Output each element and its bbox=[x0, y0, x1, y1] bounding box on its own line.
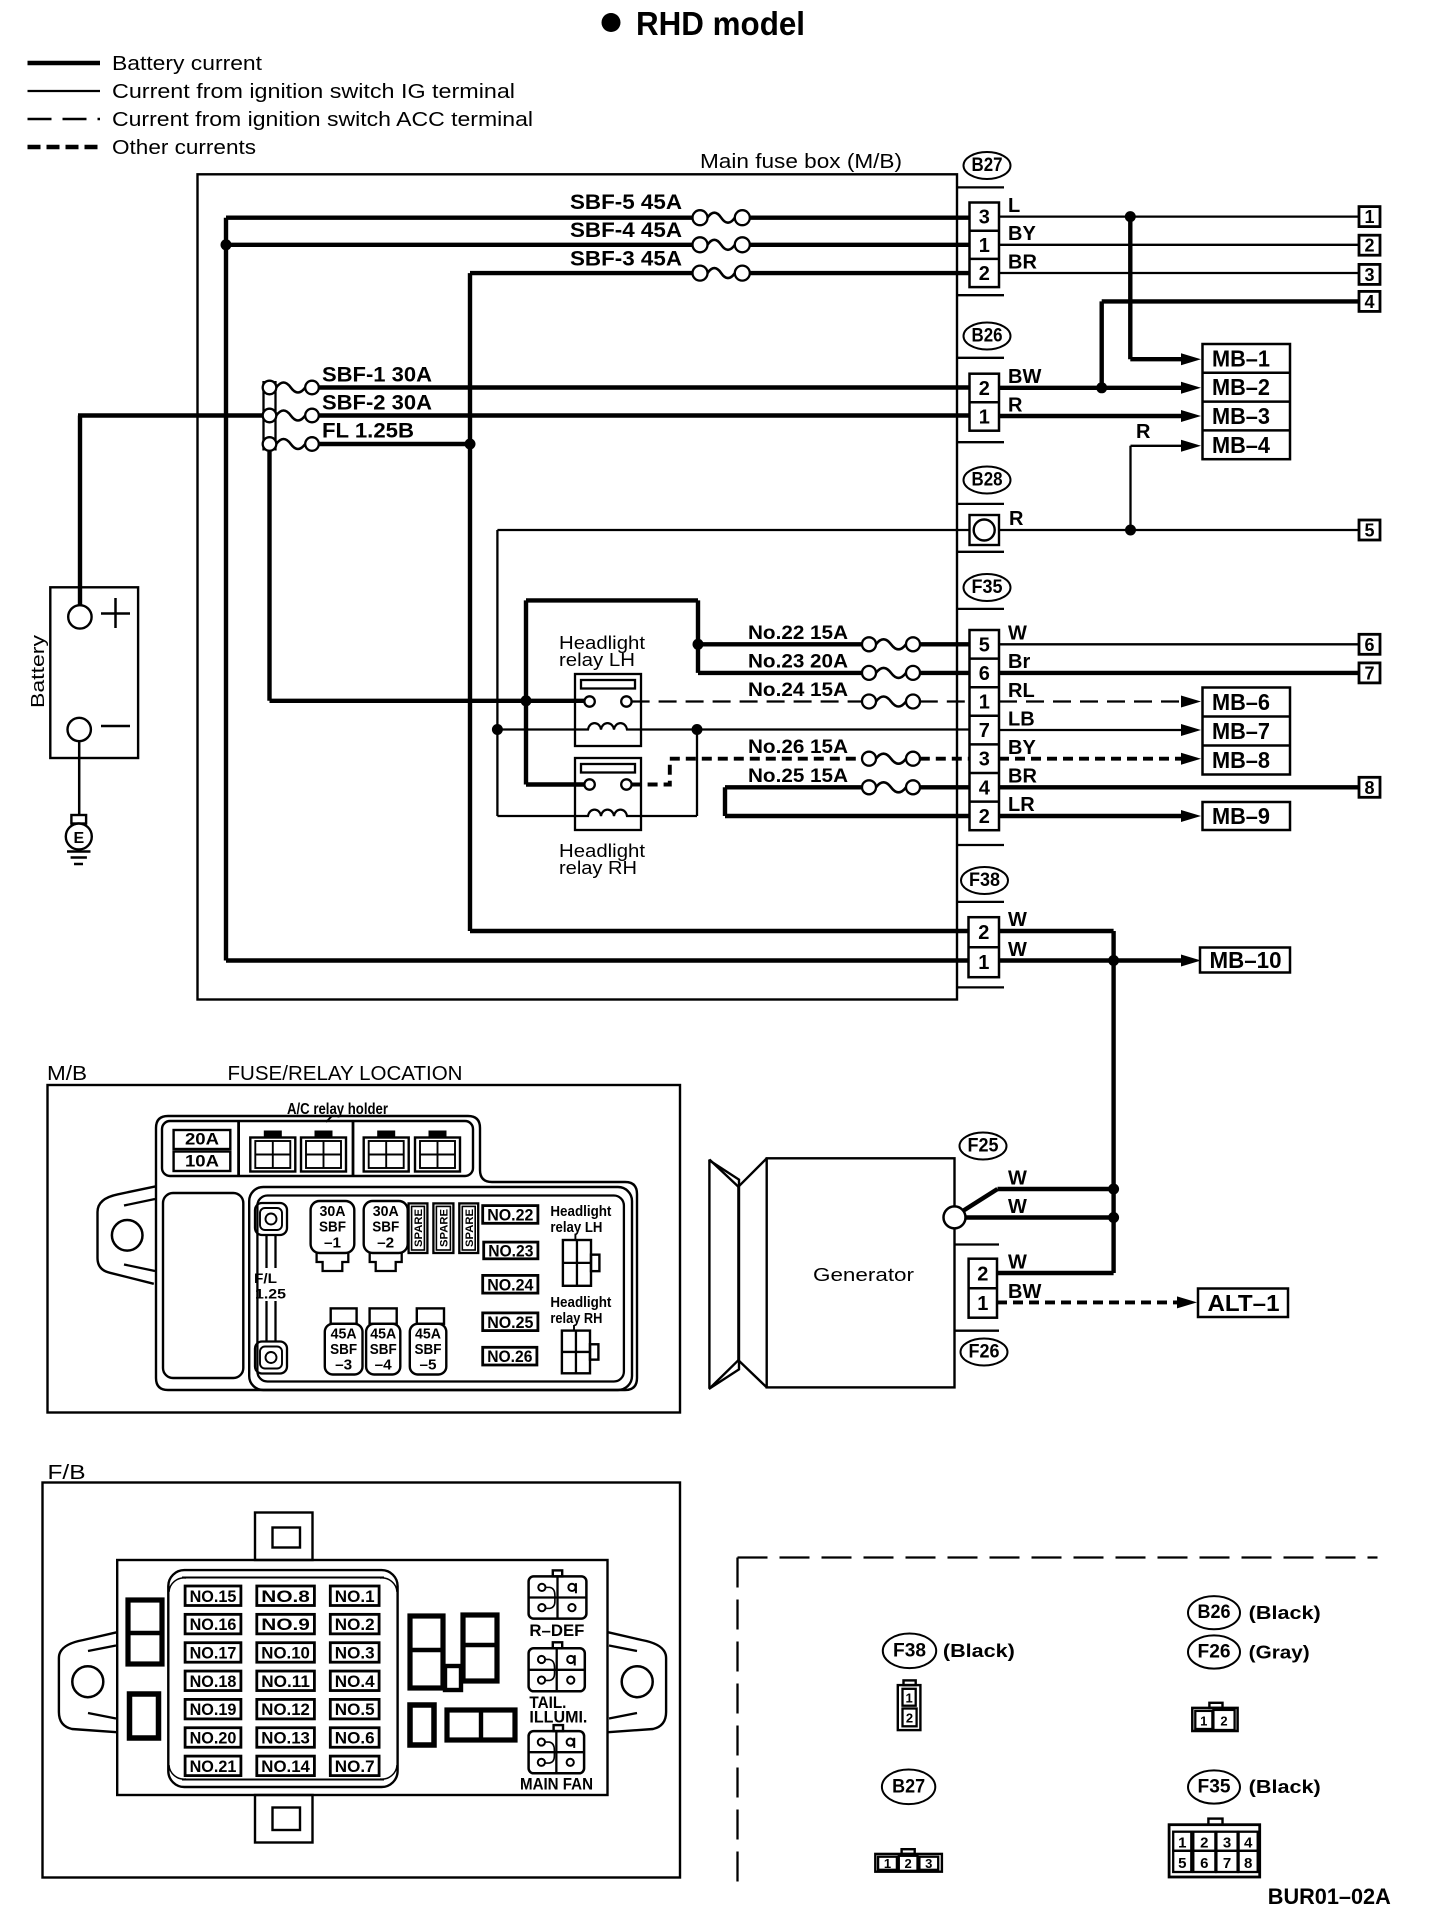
wire BR to box3 bbox=[999, 272, 1359, 274]
svg-text:1: 1 bbox=[979, 692, 990, 714]
junction gen W1 bbox=[1108, 1184, 1119, 1195]
fuse No.26 15A bbox=[748, 737, 920, 766]
svg-text:NO.15: NO.15 bbox=[190, 1588, 237, 1606]
label LR bbox=[1008, 794, 1035, 816]
wire SBF-3 feed vertical bbox=[470, 273, 970, 931]
connector label F38 bbox=[961, 867, 1008, 894]
wire SBF-5 feed vertical bbox=[224, 218, 228, 961]
wire No22-23 feed bbox=[526, 600, 698, 673]
junction LB bbox=[692, 724, 703, 735]
svg-text:2: 2 bbox=[977, 1263, 988, 1285]
svg-text:30A: 30A bbox=[373, 1203, 399, 1220]
F/B left bracket bbox=[59, 1632, 117, 1732]
wire F26 pin2 W bbox=[997, 1271, 1114, 1275]
svg-text:–4: –4 bbox=[375, 1357, 393, 1374]
svg-text:E: E bbox=[73, 830, 84, 847]
wire LR internal bbox=[725, 814, 970, 818]
label L bbox=[1008, 195, 1020, 217]
svg-text:ILLUMI.: ILLUMI. bbox=[529, 1708, 587, 1727]
wire SBF-3 to B27 pin2 bbox=[749, 271, 970, 275]
wire No25 to pin4 bbox=[920, 785, 970, 789]
svg-text:45A: 45A bbox=[331, 1326, 357, 1343]
20A box bbox=[174, 1130, 231, 1150]
wire SBF-4 to B27 pin1 bbox=[749, 243, 970, 247]
svg-text:Main fuse box (M/B): Main fuse box (M/B) bbox=[700, 151, 902, 173]
F/B middle connector B bbox=[463, 1615, 497, 1681]
fuse bus bar bbox=[264, 381, 276, 451]
connector tick y295.2 bbox=[957, 294, 1004, 296]
wire No25 bbox=[725, 787, 863, 816]
wire battery positive bbox=[78, 416, 267, 606]
legend other currents text bbox=[112, 137, 256, 159]
headlight relay LH label bbox=[559, 632, 645, 670]
wire SBF-1 output bbox=[319, 385, 970, 389]
wire F26 pin1 BW to ALT-1 bbox=[997, 1296, 1197, 1308]
connector label B28 bbox=[964, 467, 1011, 494]
connector view F38 label bbox=[883, 1634, 1015, 1669]
svg-text:L: L bbox=[1008, 195, 1020, 217]
svg-text:Battery current: Battery current bbox=[112, 53, 262, 75]
legend IG text bbox=[112, 81, 515, 103]
F/B frame bbox=[43, 1483, 681, 1878]
wire generator W2 bbox=[966, 1215, 1114, 1219]
svg-text:1: 1 bbox=[905, 1691, 912, 1706]
svg-text:4: 4 bbox=[1364, 292, 1374, 312]
fuse No.25 15A bbox=[748, 766, 920, 794]
svg-text:MB–9: MB–9 bbox=[1212, 803, 1270, 829]
svg-text:NO.22: NO.22 bbox=[487, 1206, 533, 1224]
connector label B27 bbox=[964, 152, 1011, 179]
fuse label NO.2 bbox=[330, 1614, 379, 1634]
svg-text:RHD model: RHD model bbox=[636, 5, 805, 42]
A/C relay socket 4 bbox=[415, 1131, 460, 1172]
label LB bbox=[1008, 709, 1035, 731]
svg-text:MB–8: MB–8 bbox=[1212, 747, 1270, 773]
MAIN FAN label bbox=[520, 1775, 593, 1794]
generator body bbox=[767, 1158, 955, 1387]
A/C relay holder box bbox=[162, 1121, 473, 1176]
A/C relay holder label bbox=[287, 1101, 388, 1122]
svg-text:1: 1 bbox=[1178, 1835, 1186, 1852]
svg-text:20A: 20A bbox=[185, 1130, 219, 1149]
svg-text:NO.25: NO.25 bbox=[487, 1314, 533, 1332]
svg-text:6: 6 bbox=[979, 663, 990, 685]
F/B middle connector C bbox=[410, 1705, 434, 1745]
svg-text:B27: B27 bbox=[972, 155, 1003, 176]
wire LB to MB-7 bbox=[999, 724, 1201, 736]
headlight relay RH label bbox=[559, 840, 645, 878]
M/B headlight relay LH glyph bbox=[563, 1240, 600, 1286]
fuse label NO.10 bbox=[257, 1643, 315, 1663]
wire coil RH link bbox=[641, 730, 697, 817]
spare slot 3 bbox=[459, 1203, 478, 1253]
M/B unit outline bbox=[156, 1116, 637, 1390]
connector view F26 label bbox=[1188, 1635, 1310, 1668]
svg-text:BY: BY bbox=[1008, 737, 1036, 759]
relay LH box bbox=[575, 674, 641, 746]
svg-text:FUSE/RELAY LOCATION: FUSE/RELAY LOCATION bbox=[228, 1063, 463, 1085]
node box 8 bbox=[1359, 777, 1380, 798]
battery minus terminal bbox=[68, 718, 131, 741]
wire BR to box8 bbox=[999, 785, 1359, 789]
connector tick y187.4 bbox=[957, 186, 1004, 188]
label R B26 bbox=[1008, 395, 1023, 417]
svg-text:7: 7 bbox=[979, 720, 990, 742]
label NO.25 bbox=[483, 1313, 538, 1332]
svg-text:4: 4 bbox=[979, 777, 991, 799]
connector tick y551.8 bbox=[957, 551, 1004, 553]
connector F26 pins bbox=[969, 1259, 997, 1318]
F/L link bottom cap bbox=[255, 1342, 287, 1374]
connector tick y357.8 bbox=[957, 357, 1004, 359]
junction BW bbox=[1096, 382, 1107, 393]
svg-text:8: 8 bbox=[1364, 778, 1374, 798]
svg-text:NO.18: NO.18 bbox=[190, 1673, 237, 1691]
svg-text:–2: –2 bbox=[377, 1235, 394, 1252]
fuse label NO.19 bbox=[185, 1699, 241, 1719]
svg-text:1: 1 bbox=[1200, 1714, 1207, 1729]
fuse label NO.7 bbox=[330, 1756, 379, 1776]
svg-text:NO.8: NO.8 bbox=[261, 1588, 310, 1606]
generator tick bottom bbox=[955, 1330, 1000, 1332]
connector label F25 bbox=[960, 1133, 1007, 1160]
svg-text:BR: BR bbox=[1008, 252, 1037, 274]
wire RL to MB-6 bbox=[999, 696, 1201, 708]
fuse No.23 20A bbox=[748, 652, 920, 680]
spare slot 2 bbox=[433, 1203, 453, 1253]
svg-text:10A: 10A bbox=[185, 1152, 219, 1171]
svg-text:F/L: F/L bbox=[254, 1271, 277, 1286]
wire BW to MB-2 bbox=[999, 382, 1201, 394]
fuse label NO.4 bbox=[330, 1671, 379, 1691]
svg-text:Current from ignition switch A: Current from ignition switch ACC termina… bbox=[112, 109, 533, 131]
svg-text:1: 1 bbox=[1364, 207, 1374, 227]
svg-text:2: 2 bbox=[1364, 236, 1374, 256]
svg-text:Br: Br bbox=[1008, 651, 1030, 673]
junction R bbox=[1125, 525, 1136, 536]
fuse slot 45A SBF-5 bbox=[410, 1308, 447, 1374]
svg-text:relay RH: relay RH bbox=[559, 857, 637, 878]
MAIN FAN relay glyph bbox=[529, 1725, 585, 1773]
svg-text:SPARE: SPARE bbox=[438, 1209, 450, 1247]
M/B right pennant bbox=[709, 1160, 739, 1389]
svg-text:–3: –3 bbox=[335, 1357, 352, 1374]
label W gen2 bbox=[1008, 1196, 1027, 1218]
svg-text:No.23 20A: No.23 20A bbox=[748, 652, 848, 673]
wire battery negative to ground bbox=[78, 741, 81, 815]
svg-text:F25: F25 bbox=[968, 1136, 999, 1157]
label W F35 bbox=[1008, 623, 1027, 645]
svg-text:SBF: SBF bbox=[415, 1341, 442, 1358]
fuse relay location title bbox=[228, 1063, 463, 1085]
node box 5 bbox=[1359, 520, 1380, 541]
M/B headlight relay LH pointer bbox=[574, 1234, 576, 1240]
wire R to MB-3 bbox=[999, 410, 1201, 422]
wire LR to MB-9 bbox=[999, 810, 1201, 822]
fuse slot 30A SBF-2 bbox=[364, 1201, 408, 1271]
fuse label NO.15 bbox=[185, 1586, 241, 1606]
svg-text:A/C relay holder: A/C relay holder bbox=[287, 1101, 388, 1118]
label BR bbox=[1008, 252, 1037, 274]
svg-text:–1: –1 bbox=[324, 1235, 341, 1252]
legend IG line bbox=[28, 90, 101, 92]
svg-text:F35: F35 bbox=[1198, 1777, 1231, 1798]
svg-text:(Black): (Black) bbox=[1249, 1603, 1321, 1623]
svg-text:(Gray): (Gray) bbox=[1249, 1643, 1310, 1663]
F/B left connector A bbox=[128, 1600, 162, 1664]
svg-text:NO.7: NO.7 bbox=[335, 1758, 375, 1776]
fuse SBF-2 30A bbox=[263, 392, 432, 423]
svg-text:NO.5: NO.5 bbox=[335, 1701, 375, 1719]
svg-text:relay LH: relay LH bbox=[550, 1219, 602, 1236]
svg-text:45A: 45A bbox=[370, 1326, 396, 1343]
TAIL ILLUMI label bbox=[529, 1693, 587, 1727]
svg-text:No.26 15A: No.26 15A bbox=[748, 737, 848, 758]
svg-text:–5: –5 bbox=[420, 1357, 437, 1374]
A/C relay socket 2 bbox=[301, 1131, 346, 1172]
svg-text:SBF: SBF bbox=[370, 1341, 397, 1358]
R-DEF relay glyph bbox=[529, 1570, 587, 1618]
fuse label NO.13 bbox=[257, 1728, 315, 1748]
svg-text:F38: F38 bbox=[893, 1640, 926, 1661]
F/B middle connector A bbox=[410, 1616, 443, 1688]
title RHD model bbox=[636, 5, 805, 42]
wire box4 to BW junction bbox=[1102, 301, 1359, 387]
wire No26 dashed bbox=[632, 759, 863, 785]
svg-text:BUR01–02A: BUR01–02A bbox=[1268, 1884, 1391, 1908]
wire BY to MB-8 bbox=[999, 753, 1201, 765]
svg-text:MB–7: MB–7 bbox=[1212, 718, 1270, 744]
M/B left bracket bbox=[98, 1186, 157, 1284]
node box 7 bbox=[1359, 663, 1380, 684]
svg-text:3: 3 bbox=[1223, 1835, 1231, 1852]
node box 3 bbox=[1359, 264, 1380, 285]
svg-text:3: 3 bbox=[925, 1856, 932, 1871]
dashed border bbox=[738, 1558, 1378, 1888]
fuse label NO.1 bbox=[330, 1586, 379, 1606]
node box 1 bbox=[1359, 207, 1380, 228]
label BR F35 bbox=[1008, 766, 1037, 788]
svg-text:2: 2 bbox=[1220, 1714, 1227, 1729]
svg-text:6: 6 bbox=[1364, 635, 1374, 655]
M/B label bbox=[47, 1063, 87, 1085]
svg-text:F26: F26 bbox=[1198, 1642, 1231, 1663]
label W gen1 bbox=[1008, 1168, 1027, 1190]
fuse slot 45A SBF-3 bbox=[325, 1308, 363, 1374]
relay RH box bbox=[575, 758, 641, 830]
wire LH coil left bbox=[497, 728, 575, 730]
svg-text:NO.10: NO.10 bbox=[261, 1644, 310, 1662]
wire generator W diagonal bbox=[962, 1189, 1114, 1212]
M/B headlight relay RH label bbox=[550, 1294, 611, 1327]
svg-text:B27: B27 bbox=[892, 1776, 925, 1797]
wire B28 R to box5 bbox=[999, 529, 1359, 531]
svg-text:1: 1 bbox=[977, 1293, 988, 1315]
TAIL ILLUMI relay glyph bbox=[529, 1642, 585, 1691]
svg-text:F38: F38 bbox=[969, 870, 1000, 891]
svg-text:NO.13: NO.13 bbox=[261, 1730, 310, 1748]
legend battery current text bbox=[112, 53, 262, 75]
junction gen W2 bbox=[1108, 1212, 1119, 1223]
connector view F35 label bbox=[1188, 1770, 1321, 1803]
svg-text:No.22 15A: No.22 15A bbox=[748, 623, 848, 644]
wire SBF-5 to B27 pin3 bbox=[749, 215, 970, 219]
svg-text:5: 5 bbox=[1178, 1855, 1186, 1872]
svg-text:F35: F35 bbox=[972, 577, 1003, 598]
svg-text:NO.19: NO.19 bbox=[190, 1701, 237, 1719]
connector label F26 bbox=[961, 1339, 1008, 1366]
wire SBF-2 output bbox=[319, 413, 970, 417]
generator B terminal bbox=[944, 1206, 966, 1228]
svg-text:LR: LR bbox=[1008, 794, 1035, 816]
wire SBF-3 to fuse bbox=[470, 271, 693, 275]
svg-text:FL 1.25B: FL 1.25B bbox=[322, 420, 414, 443]
svg-text:5: 5 bbox=[979, 634, 990, 656]
connector view B27 label bbox=[882, 1770, 935, 1805]
svg-text:SBF-2 30A: SBF-2 30A bbox=[322, 392, 432, 415]
label R B28 bbox=[1009, 508, 1024, 530]
svg-text:NO.9: NO.9 bbox=[261, 1616, 310, 1634]
drawing number bbox=[1268, 1884, 1391, 1908]
connector label B26 bbox=[964, 323, 1011, 350]
generator tick top bbox=[955, 1243, 1000, 1245]
wire No24 to pin1 bbox=[920, 700, 970, 702]
svg-text:relay LH: relay LH bbox=[559, 649, 635, 670]
svg-text:F26: F26 bbox=[969, 1342, 1000, 1363]
fuse slot 30A SBF-1 bbox=[311, 1201, 355, 1271]
wire BY to box2 bbox=[999, 244, 1359, 246]
battery plus terminal bbox=[68, 598, 130, 629]
label R MB-4 bbox=[1136, 421, 1151, 443]
connector view B26 label bbox=[1188, 1596, 1321, 1629]
fuse No.24 15A bbox=[748, 680, 920, 709]
svg-text:W: W bbox=[1008, 1168, 1027, 1190]
svg-text:MB–10: MB–10 bbox=[1210, 947, 1282, 973]
svg-text:2: 2 bbox=[979, 263, 990, 285]
generator pulley bbox=[709, 1158, 766, 1388]
svg-text:3: 3 bbox=[979, 749, 990, 771]
MB-9 box bbox=[1203, 802, 1291, 830]
MB-10 box bbox=[1200, 947, 1290, 973]
label W F38 pin2 bbox=[1008, 909, 1027, 931]
connector view B27 pins bbox=[875, 1849, 942, 1872]
junction No22 bbox=[693, 639, 704, 650]
fuse label NO.17 bbox=[185, 1643, 241, 1663]
relay RH contacts bbox=[584, 779, 631, 789]
svg-text:NO.23: NO.23 bbox=[488, 1242, 533, 1260]
svg-text:W: W bbox=[1008, 939, 1027, 961]
label NO.23 bbox=[484, 1242, 538, 1260]
connector B28 pin bbox=[970, 515, 1000, 545]
wire F38 pin2 W bbox=[999, 931, 1114, 1273]
svg-text:SPARE: SPARE bbox=[413, 1209, 425, 1247]
svg-text:No.25 15A: No.25 15A bbox=[748, 766, 848, 787]
svg-text:45A: 45A bbox=[415, 1326, 441, 1343]
svg-text:30A: 30A bbox=[320, 1203, 346, 1220]
svg-text:BW: BW bbox=[1008, 1281, 1041, 1303]
F/B fuse grid box bbox=[168, 1570, 397, 1787]
fuse label NO.20 bbox=[185, 1728, 241, 1748]
svg-text:R–DEF: R–DEF bbox=[529, 1621, 584, 1640]
svg-text:3: 3 bbox=[1364, 265, 1374, 285]
wire SBF-4 to fuse bbox=[226, 243, 693, 247]
label BW bbox=[1008, 366, 1041, 388]
svg-text:B26: B26 bbox=[1198, 1602, 1231, 1623]
F/B middle connector small bbox=[445, 1666, 461, 1690]
svg-text:Other currents: Other currents bbox=[112, 137, 256, 159]
connector F38 pins bbox=[969, 917, 1000, 977]
wire to MB-1 bbox=[1130, 217, 1201, 366]
svg-text:ALT–1: ALT–1 bbox=[1208, 1290, 1280, 1316]
svg-text:7: 7 bbox=[1364, 663, 1374, 683]
fuse label NO.21 bbox=[185, 1756, 241, 1776]
fuse SBF-1 30A bbox=[263, 364, 432, 395]
wire LB from coil bbox=[641, 728, 970, 730]
svg-text:NO.16: NO.16 bbox=[190, 1616, 237, 1634]
label NO.22 bbox=[483, 1206, 538, 1225]
svg-text:NO.14: NO.14 bbox=[261, 1758, 310, 1776]
svg-text:BW: BW bbox=[1008, 366, 1041, 388]
fuse label NO.12 bbox=[257, 1699, 315, 1719]
M/B headlight relay RH pointer bbox=[573, 1325, 575, 1331]
fuse label NO.11 bbox=[257, 1671, 315, 1691]
wire bus down to relay feed bbox=[270, 451, 585, 701]
wire F38 pin1 W to MB-10 bbox=[999, 955, 1201, 967]
battery box bbox=[50, 587, 138, 758]
svg-text:MB–3: MB–3 bbox=[1212, 403, 1270, 429]
F/B label bbox=[48, 1462, 86, 1484]
svg-text:SBF-5 45A: SBF-5 45A bbox=[570, 191, 682, 214]
svg-text:SBF: SBF bbox=[372, 1219, 399, 1236]
svg-text:2: 2 bbox=[978, 922, 989, 944]
svg-text:R: R bbox=[1136, 421, 1151, 443]
label W F26 bbox=[1008, 1252, 1027, 1274]
svg-text:SBF: SBF bbox=[319, 1219, 346, 1236]
F/B right bracket bbox=[608, 1632, 666, 1732]
connector label F35 bbox=[964, 574, 1011, 601]
junction relay feed bbox=[521, 695, 532, 706]
svg-text:MB–6: MB–6 bbox=[1212, 689, 1270, 715]
svg-text:8: 8 bbox=[1244, 1855, 1252, 1872]
junction MB-10 bbox=[1108, 955, 1119, 966]
svg-text:B28: B28 bbox=[972, 470, 1003, 491]
ground E bbox=[66, 815, 92, 864]
ALT-1 box bbox=[1198, 1289, 1288, 1318]
svg-text:Battery: Battery bbox=[27, 634, 48, 708]
spare slot 1 bbox=[409, 1203, 428, 1253]
A/C relay socket 3 bbox=[364, 1131, 409, 1172]
svg-text:NO.17: NO.17 bbox=[190, 1644, 237, 1662]
fuse label NO.5 bbox=[330, 1699, 379, 1719]
wire No22 to pin5 bbox=[920, 642, 970, 646]
svg-text:B26: B26 bbox=[972, 326, 1003, 347]
svg-text:Headlight: Headlight bbox=[550, 1203, 611, 1220]
svg-text:2: 2 bbox=[1200, 1835, 1208, 1852]
fuse slot 45A SBF-4 bbox=[366, 1308, 400, 1374]
connector B26 pins bbox=[970, 374, 1000, 431]
M/B frame bbox=[48, 1085, 681, 1413]
wire No23 to pin6 bbox=[920, 671, 970, 675]
M/B left empty box bbox=[163, 1193, 243, 1378]
svg-text:Headlight: Headlight bbox=[550, 1294, 611, 1311]
svg-text:NO.4: NO.4 bbox=[335, 1673, 376, 1691]
F/L label bbox=[254, 1271, 287, 1302]
10A box bbox=[174, 1152, 231, 1172]
svg-text:MAIN FAN: MAIN FAN bbox=[520, 1775, 593, 1794]
connector tick y901.9 bbox=[957, 901, 1004, 903]
svg-text:3: 3 bbox=[979, 207, 990, 229]
F/B bottom tab bbox=[255, 1795, 313, 1843]
